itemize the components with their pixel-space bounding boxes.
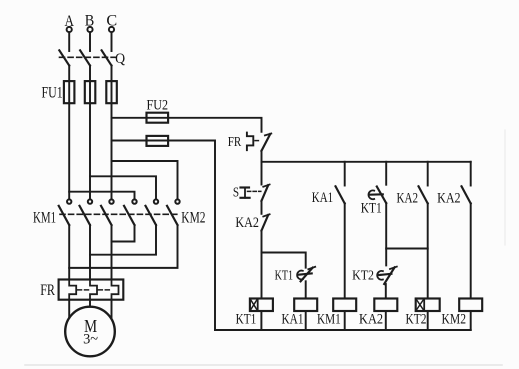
wire KT1 contact to KA1 coil — [305, 281, 307, 298]
wire C tap to FU2 upper — [112, 117, 147, 119]
relay contact KA2 top bar — [263, 214, 269, 216]
KM2 pole 3 blade — [167, 206, 178, 225]
fuse FU1 phase B body — [85, 81, 96, 103]
FR heater element phase A — [69, 280, 76, 300]
coil KT1 bottom stub — [260, 311, 262, 330]
timer contact KT2 delayed chord line — [378, 274, 391, 275]
relay contact KA2 (NC) blade — [262, 215, 269, 231]
coil KT2 divider — [423, 299, 425, 312]
svg-text:KM2: KM2 — [181, 210, 205, 227]
fuse FU2 lower body — [147, 136, 169, 146]
wire KM1 pole1 to FR box — [68, 225, 70, 280]
terminal B — [87, 27, 92, 32]
switch Q linkage dashed line — [60, 56, 118, 58]
svg-text:Q: Q — [115, 51, 125, 67]
wire FU2 upper to FR contact — [168, 118, 261, 132]
svg-text:KM1: KM1 — [33, 209, 56, 226]
timer contact KT1 delayed arc — [297, 271, 303, 280]
switch Q pole 3 blade — [102, 50, 112, 65]
terminal A — [67, 27, 72, 32]
svg-text:KA2: KA2 — [397, 190, 419, 206]
pushbutton S head bar — [241, 186, 250, 188]
wire A tap to KM2 pole 1 — [69, 192, 134, 200]
FR contact top bar — [265, 134, 271, 136]
coil KT2 body — [416, 299, 440, 312]
fuse FU1 phase A body — [64, 81, 75, 103]
coil KA1 body — [294, 299, 317, 312]
wire KA2 contact to KM2 coil — [470, 203, 472, 298]
KM2 pole 2 fixed contact — [154, 199, 158, 203]
KM2 pole 3 fixed contact — [175, 199, 179, 203]
timer contact KT1 delayed blade — [301, 268, 313, 282]
control top rail — [262, 161, 471, 163]
svg-text:FU2: FU2 — [147, 98, 169, 114]
wire C terminal to switch — [111, 32, 113, 51]
svg-text:KA2: KA2 — [359, 312, 383, 328]
KM linkage dashed line — [60, 213, 180, 215]
svg-text:KT2: KT2 — [352, 268, 374, 283]
scan artifact right edge line — [504, 130, 506, 245]
motor M circle — [65, 307, 115, 357]
wire KA2 contact to KT1 coil — [261, 231, 263, 299]
svg-text:KA2: KA2 — [437, 191, 461, 207]
KM2 pole 2 blade — [146, 206, 157, 225]
timer contact KT2 top bar — [390, 267, 397, 269]
svg-text:FR: FR — [40, 282, 55, 299]
timer contact KT1 (NO) chord line — [370, 193, 383, 196]
pushbutton S blade (NC) — [262, 185, 269, 201]
KM1 pole 2 fixed contact — [88, 199, 92, 203]
coil KA2 bottom stub — [385, 311, 387, 330]
wire C tap to FU2 lower — [112, 140, 147, 142]
wire branch3 stub — [385, 162, 387, 185]
fuse FU1 phase B wire through — [89, 81, 91, 103]
KM1 pole 1 blade — [59, 206, 69, 225]
wire B tap to KM2 pole 2 — [90, 176, 156, 199]
wire branch5 stub — [470, 162, 472, 186]
relay contact KA1 (NO) blade — [336, 186, 345, 203]
coil KT1 body — [250, 299, 273, 312]
wire A FU1 to KM contact — [68, 103, 70, 199]
pushbutton S stem — [244, 188, 246, 198]
wire branch3 to KT2 contact — [385, 203, 387, 265]
pushbutton S top bar — [263, 185, 269, 187]
relay contact KA2 right (NO) blade — [462, 186, 471, 203]
coil KA1 bottom stub — [305, 311, 307, 330]
svg-text:KT1: KT1 — [275, 268, 294, 283]
wire C tap to KM2 pole 3 — [112, 161, 178, 199]
wire FU2 lower return to bottom rail — [168, 141, 215, 331]
wire B switch to FU1 — [89, 66, 91, 82]
wire junction branch1 to KT1 delayed contact — [262, 253, 306, 268]
coil KM1 body — [333, 299, 356, 312]
fuse FU1 phase C body — [106, 81, 117, 103]
wire KT2 contact to KA2 coil — [385, 284, 387, 299]
wire FR box to motor phase A — [68, 300, 70, 318]
wire FR box to motor phase B — [89, 300, 91, 307]
fuse FU2 lower wire through — [147, 140, 169, 142]
KM2 pole 1 fixed contact — [132, 199, 136, 203]
fuse FU1 phase C wire through — [111, 81, 113, 103]
coil KA2 body — [374, 299, 397, 312]
timer contact KT2 delayed blade — [384, 267, 394, 284]
wire branch4 stub — [427, 162, 429, 186]
timer contact KT1 (NO) arc — [368, 190, 374, 199]
svg-text:KT1: KT1 — [361, 201, 382, 217]
wire KM2 pole1 crossover to C column — [112, 225, 135, 242]
FR heater element phase C — [112, 280, 119, 300]
wire KM2 pole3 crossover to A column — [69, 225, 177, 268]
wire A switch to FU1 — [68, 66, 70, 82]
wire branch1 stub — [261, 162, 263, 185]
fuse FU1 phase A wire through — [68, 81, 70, 103]
timer contact KT2 delayed arc — [377, 271, 383, 280]
timer contact KT1 (NO) blade — [377, 187, 386, 204]
switch Q pole 1 blade — [59, 50, 69, 65]
terminal C — [109, 27, 114, 32]
wire KM1 pole2 to FR box — [89, 225, 91, 280]
control bottom rail — [215, 329, 471, 331]
FR heater linkage dashes — [78, 289, 90, 291]
pushbutton S base bar — [241, 197, 250, 199]
svg-text:KM2: KM2 — [442, 312, 467, 328]
FR contact linkage dashes — [255, 140, 261, 142]
wire junction branch3 to branch4 — [386, 248, 428, 250]
coil KT2 bottom stub — [427, 311, 429, 330]
wire branch2 stub — [344, 162, 346, 186]
svg-text:KA2: KA2 — [235, 215, 259, 231]
wire B terminal to switch — [89, 32, 91, 51]
wire KM1 pole3 to FR box — [111, 225, 113, 280]
wire FR box to motor phase C — [111, 300, 113, 319]
FR contact heater jog symbol — [247, 133, 253, 151]
wire S to KA2 contact — [261, 201, 263, 214]
thermal relay FR box — [59, 280, 124, 300]
KM1 pole 3 blade — [101, 206, 112, 225]
coil KM2 bottom stub — [470, 311, 472, 330]
svg-text:FU1: FU1 — [42, 84, 63, 101]
coil KM2 body — [459, 299, 482, 312]
FR heater element phase B — [90, 280, 97, 300]
KM1 pole 1 fixed contact — [67, 199, 71, 203]
coil KT1 divider — [257, 299, 259, 312]
coil KT2 X mark — [416, 299, 425, 312]
timer contact KT1 top bar — [308, 267, 315, 269]
KM2 pole 1 blade — [124, 206, 135, 225]
wire FR contact to top rail — [261, 151, 263, 162]
svg-text:3~: 3~ — [83, 331, 98, 347]
scan artifact bottom streak — [25, 364, 502, 366]
wire KA2 contact to KT2 coil — [427, 203, 429, 298]
KM1 pole 3 fixed contact — [109, 199, 113, 203]
relay contact KA2 mid (NO) blade — [419, 186, 428, 203]
svg-text:KA1: KA1 — [282, 312, 304, 328]
wire C switch to FU1 — [111, 66, 113, 82]
svg-text:KT1: KT1 — [236, 311, 257, 327]
FR contact blade — [262, 134, 271, 151]
fuse FU2 upper body — [147, 113, 169, 123]
fuse FU2 upper wire through — [147, 117, 169, 119]
wire C FU1 to KM contact — [111, 103, 113, 199]
coil KT1 X mark — [250, 299, 258, 312]
wire KM2 pole2 crossover to B column — [90, 225, 156, 255]
svg-text:FR: FR — [228, 134, 242, 149]
svg-text:KM1: KM1 — [317, 312, 341, 328]
svg-text:S: S — [233, 184, 239, 199]
coil KM1 bottom stub — [344, 311, 346, 330]
switch Q pole 2 blade — [80, 50, 90, 65]
wire KA1 contact to KM1 coil — [344, 203, 346, 298]
wire A terminal to switch — [68, 32, 70, 51]
timer contact KT1 delayed chord line — [299, 273, 312, 274]
svg-text:KT2: KT2 — [406, 312, 427, 328]
KM1 pole 2 blade — [80, 206, 91, 225]
pushbutton S linkage dashes — [248, 190, 261, 192]
svg-text:KA1: KA1 — [312, 190, 333, 206]
wire B FU1 to KM contact — [89, 103, 91, 199]
